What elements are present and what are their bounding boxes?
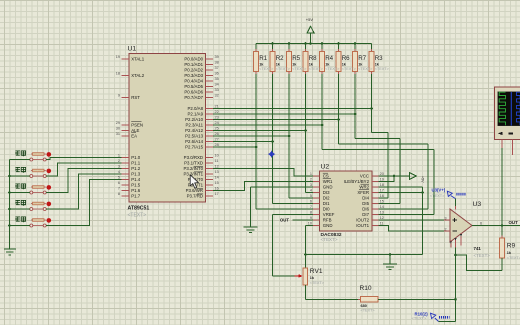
resistor R6 label	[342, 55, 350, 62]
op-amp U3 triangle	[450, 209, 472, 242]
potentiometer RV1 label	[310, 268, 323, 275]
svg-text:+5V: +5V	[421, 176, 425, 183]
svg-text:R8: R8	[309, 55, 317, 62]
graph control marks	[498, 132, 513, 135]
svg-text:6: 6	[118, 181, 120, 185]
svg-text:18: 18	[116, 72, 120, 76]
svg-text:<TEXT>: <TEXT>	[342, 67, 357, 71]
wire DAC DGND pin10 down to ground rail	[304, 226, 313, 268]
svg-text:XTAL2: XTAL2	[131, 73, 145, 78]
svg-text:P2.0/A8: P2.0/A8	[188, 106, 204, 111]
svg-text:DI5: DI5	[362, 201, 369, 206]
resistor R2 label	[276, 55, 284, 62]
wire R8 column down to DAC data pin	[306, 74, 314, 193]
push button SW3	[30, 185, 51, 194]
svg-text:17: 17	[380, 189, 384, 193]
resistor R6 body	[336, 44, 341, 75]
resistor R4 value 1k	[325, 62, 330, 66]
svg-text:IOUT2: IOUT2	[356, 218, 369, 223]
button 3 label 三角	[15, 184, 25, 189]
push button SW1	[30, 152, 51, 161]
svg-text:U1: U1	[128, 46, 137, 53]
svg-text:7: 7	[118, 187, 120, 191]
svg-text:WR2: WR2	[359, 185, 369, 190]
net label OUT right edge	[509, 220, 519, 225]
resistor R10 label	[360, 285, 372, 292]
svg-text:P1.6: P1.6	[131, 188, 141, 193]
wire P3.2 to DAC CS	[213, 169, 313, 177]
wire button 4 left terminal to chain	[10, 208, 30, 210]
IC U1 AT89C51 body	[129, 53, 206, 202]
svg-text:13: 13	[215, 170, 219, 174]
svg-text:<TEXT>: <TEXT>	[358, 67, 373, 71]
resistor R9 TEXT placeholder	[507, 256, 520, 260]
svg-text:1: 1	[310, 172, 312, 176]
svg-text:P2.4/A12: P2.4/A12	[185, 128, 203, 133]
svg-text:OUT: OUT	[509, 220, 519, 225]
U1 left pin stubs	[122, 59, 129, 196]
wire R3 column staircase to DAC data pin	[372, 74, 389, 198]
svg-text:3: 3	[310, 183, 312, 187]
svg-text:4: 4	[310, 189, 312, 193]
button 2 label 方波	[15, 167, 25, 172]
wire button 1 to U1 P1.0	[46, 158, 121, 160]
wire button 3 to U1 P1.2	[46, 169, 121, 193]
resistor R2 body	[270, 44, 275, 75]
resistor R1 label	[259, 55, 267, 62]
wire stub DAC RFB with OUT net label	[293, 219, 314, 221]
ground symbol button chain	[4, 249, 16, 255]
svg-text:11: 11	[380, 222, 384, 226]
svg-text:33: 33	[215, 88, 219, 92]
wire DAC ILE up to VCC net	[378, 175, 395, 182]
svg-text:<TEXT>: <TEXT>	[310, 281, 325, 285]
svg-text:14: 14	[380, 205, 384, 209]
svg-text:741: 741	[474, 246, 482, 251]
resistor R5 body	[287, 44, 292, 75]
wire R7 column staircase to DAC data pin	[355, 74, 400, 204]
U2 left pin stubs	[313, 176, 320, 226]
svg-text:<TEXT>: <TEXT>	[412, 316, 428, 321]
svg-text:<TEXT>: <TEXT>	[474, 253, 491, 258]
svg-text:P2.5/A13: P2.5/A13	[185, 134, 203, 139]
svg-text:P0.1/AD1: P0.1/AD1	[184, 62, 203, 67]
wire button 5 left terminal to chain	[10, 225, 30, 227]
resistor R5 TEXT placeholder	[292, 67, 307, 71]
svg-text:R4: R4	[325, 55, 333, 62]
power +5V label	[306, 17, 314, 22]
svg-text:34: 34	[215, 83, 219, 87]
svg-text:P3.2/INT0: P3.2/INT0	[183, 166, 203, 171]
resistor R8 value 1k	[309, 62, 314, 66]
svg-text:VREF: VREF	[323, 212, 335, 217]
svg-text:12: 12	[380, 216, 384, 220]
svg-text:17: 17	[215, 192, 219, 196]
button 5 label 梯形	[15, 217, 25, 222]
svg-text:6: 6	[480, 221, 482, 226]
svg-text:XFER: XFER	[357, 190, 369, 195]
svg-text:P3.1/TXD: P3.1/TXD	[184, 161, 203, 166]
U1 part label AT89C51	[128, 206, 150, 212]
resistor R9 body	[499, 226, 504, 271]
svg-text:P1.4: P1.4	[131, 177, 141, 182]
op-amp offset pin end marks	[450, 234, 463, 243]
ground symbol on bottom rail	[383, 255, 397, 270]
op-amp input output pin stubs	[444, 220, 479, 231]
svg-text:19: 19	[380, 178, 384, 182]
U2 TEXT placeholder	[321, 237, 338, 242]
wire DAC VCC to +5V terminal	[378, 173, 416, 180]
svg-text:<TEXT>: <TEXT>	[325, 67, 340, 71]
svg-text:10: 10	[215, 154, 219, 158]
op-amp part label 741	[474, 246, 482, 251]
U2 designator	[321, 163, 330, 170]
svg-text:14: 14	[215, 176, 219, 180]
potentiometer RV1 TEXT placeholder	[310, 281, 325, 285]
wire P3.6 to DAC WR1	[213, 182, 313, 191]
net label OUT at DAC RFB	[280, 217, 289, 222]
svg-text:<TEXT>: <TEXT>	[507, 256, 520, 260]
svg-text:P1.7: P1.7	[131, 194, 141, 199]
U2 part label DAC0832	[321, 232, 342, 238]
wire graph channel A down to OUT net	[501, 148, 503, 226]
button 1 label 正弦	[15, 151, 25, 156]
svg-text:29: 29	[116, 121, 120, 125]
svg-text:P3.3/INT1: P3.3/INT1	[183, 172, 203, 177]
resistor R4 label	[325, 55, 333, 62]
resistor R4 TEXT placeholder	[325, 67, 340, 71]
resistor R8 label	[309, 55, 317, 62]
svg-text:R3: R3	[375, 55, 383, 62]
svg-text:P0.7/AD7: P0.7/AD7	[184, 95, 203, 100]
graph display body	[495, 87, 520, 140]
wire DAC VREF to RV1 wiper	[273, 215, 314, 277]
wire P2.4 from U1 to resistor column	[213, 129, 307, 132]
resistor R7 body	[353, 44, 358, 75]
svg-text:U3: U3	[473, 201, 482, 208]
svg-text:<TEXT>: <TEXT>	[292, 67, 307, 71]
svg-text:20: 20	[380, 172, 384, 176]
svg-text:19: 19	[116, 55, 120, 59]
svg-text:15: 15	[380, 200, 384, 204]
ground symbol near DAC pin3	[244, 227, 258, 232]
svg-text:RV1: RV1	[310, 268, 323, 275]
svg-text:30: 30	[116, 127, 120, 131]
svg-text:AT89C51: AT89C51	[128, 206, 150, 212]
svg-text:<TEXT>: <TEXT>	[430, 193, 446, 198]
graph blue trace	[511, 92, 520, 126]
svg-text:WR1: WR1	[323, 179, 333, 184]
svg-text:P1.3: P1.3	[131, 172, 141, 177]
svg-text:P1.1: P1.1	[131, 161, 141, 166]
U1 designator	[128, 46, 137, 53]
wire R2 column down to DAC data pin	[273, 74, 314, 204]
wire op-amp V- net down to R10	[454, 247, 457, 321]
svg-text:PSEN: PSEN	[131, 123, 143, 128]
svg-text:<TEXT>: <TEXT>	[276, 67, 291, 71]
wire R6 column staircase to DAC data pin	[339, 74, 429, 209]
svg-text:GND: GND	[323, 223, 333, 228]
button 4 label 锯齿	[15, 200, 25, 205]
svg-text:8: 8	[118, 192, 120, 196]
svg-text:P1.5: P1.5	[131, 183, 141, 188]
rail junction dots	[271, 42, 356, 45]
svg-text:9: 9	[310, 216, 312, 220]
svg-text:R7: R7	[358, 55, 366, 62]
svg-text:GND: GND	[323, 185, 333, 190]
svg-text:13: 13	[380, 211, 384, 215]
svg-text:P0.4/AD4: P0.4/AD4	[184, 79, 203, 84]
svg-text:P0.3/AD3: P0.3/AD3	[184, 73, 203, 78]
wire P2.5 from U1 to resistor column	[213, 135, 290, 138]
svg-text:<TEXT>: <TEXT>	[361, 308, 376, 312]
svg-text:680: 680	[361, 304, 367, 308]
U1 pin names left	[131, 57, 145, 199]
svg-text:<TEXT>: <TEXT>	[259, 67, 274, 71]
svg-text:CS: CS	[323, 174, 329, 179]
wire DAC IOUT1 to op-amp inverting input	[378, 226, 450, 232]
svg-text:<TEXT>: <TEXT>	[309, 67, 324, 71]
svg-text:8: 8	[310, 211, 312, 215]
op-amp TEXT placeholder	[474, 253, 491, 258]
wire P2.3 from U1 to resistor column	[213, 124, 323, 127]
wire button 2 left terminal to chain	[10, 175, 30, 177]
wire button common ground chain vertical	[8, 160, 11, 250]
potentiometer RV1 wiper arrow	[295, 274, 303, 278]
graph green square trace	[499, 92, 505, 125]
wire P2.7 from U1 to resistor column	[213, 146, 257, 149]
svg-text:11: 11	[215, 159, 219, 163]
svg-text:32: 32	[215, 94, 219, 98]
wire DAC WR2 and XFER to ground vertical	[378, 187, 423, 255]
wire button 5 to U1 P1.4	[46, 180, 121, 226]
svg-text:<TEXT>: <TEXT>	[375, 67, 390, 71]
wire R9 bottom to V- net	[456, 255, 503, 271]
U1 pin names right	[183, 57, 203, 199]
svg-text:P0.2/AD2: P0.2/AD2	[184, 68, 203, 73]
power +5V terminal	[307, 26, 314, 43]
resistor R7 label	[358, 55, 366, 62]
op-amp V+ pin stub	[455, 199, 457, 210]
potentiometer RV1 value	[310, 276, 315, 280]
resistor R2 value 1k	[276, 62, 281, 66]
svg-text:OUT: OUT	[280, 217, 289, 222]
svg-text:9: 9	[118, 94, 120, 98]
wire P2.0 from U1 to resistor column	[213, 107, 373, 110]
wire P2.1 from U1 to resistor column	[213, 113, 356, 116]
svg-text:P1.0: P1.0	[131, 155, 141, 160]
svg-text:16: 16	[380, 194, 384, 198]
U1 pin numbers	[116, 55, 219, 196]
resistor R6 value 1k	[342, 62, 347, 66]
wire R4 column staircase to DAC data pin	[322, 74, 434, 215]
svg-text:P2.3/A11: P2.3/A11	[185, 123, 203, 128]
power rail +5V horizontal wire	[256, 43, 372, 45]
svg-text:P0.6/AD6: P0.6/AD6	[184, 90, 203, 95]
svg-text:U2: U2	[321, 163, 330, 170]
U2 right pin stubs	[372, 176, 379, 226]
resistor R8 TEXT placeholder	[309, 67, 324, 71]
blue origin marker diamond	[268, 151, 275, 158]
svg-text:EA: EA	[131, 134, 137, 139]
push button SW5	[30, 218, 51, 227]
svg-text:ILE/BY1/BY2: ILE/BY1/BY2	[344, 179, 370, 184]
op-amp offset and V- pin stubs	[451, 233, 461, 247]
resistor R3 body	[369, 44, 374, 75]
svg-text:36: 36	[215, 72, 219, 76]
U1 TEXT placeholder	[128, 213, 147, 219]
svg-text:P3.6/WR: P3.6/WR	[186, 188, 203, 193]
push button SW2	[30, 169, 51, 178]
svg-text:R6: R6	[342, 55, 350, 62]
svg-text:2: 2	[310, 178, 312, 182]
wire button 1 left terminal to chain	[10, 159, 30, 161]
wire RV1 bottom to R10	[306, 298, 361, 300]
op-amp U3 designator	[473, 201, 482, 208]
resistor R7 TEXT placeholder	[358, 67, 373, 71]
U1 right pin stubs	[205, 59, 213, 196]
svg-text:18: 18	[380, 183, 384, 187]
resistor R3 value 1k	[375, 62, 380, 66]
svg-text:P3.0/RXD: P3.0/RXD	[184, 155, 203, 160]
resistor R9 label	[507, 243, 516, 250]
svg-text:R9: R9	[507, 243, 516, 250]
svg-text:DI0: DI0	[323, 207, 330, 212]
svg-text:R5: R5	[292, 55, 300, 62]
resistor R5 label	[292, 55, 300, 62]
resistor R10 value	[361, 304, 367, 308]
svg-text:37: 37	[215, 66, 219, 70]
svg-text:P2.1/A9: P2.1/A9	[188, 112, 204, 117]
svg-text:DI6: DI6	[362, 207, 369, 212]
svg-text:P2.2/A10: P2.2/A10	[185, 117, 203, 122]
resistor R8 body	[303, 44, 308, 75]
svg-text:R2: R2	[276, 55, 284, 62]
resistor R4 body	[320, 44, 325, 75]
wire P2.6 from U1 to resistor column	[213, 140, 274, 143]
svg-text:6: 6	[310, 200, 312, 204]
svg-text:2: 2	[444, 226, 446, 231]
wire button 4 to U1 P1.3	[46, 174, 121, 209]
svg-text:<TEXT>: <TEXT>	[128, 213, 147, 219]
resistor R1 value 1k	[259, 62, 264, 66]
svg-text:R1: R1	[259, 55, 267, 62]
resistor R9 value	[507, 251, 512, 255]
wire DAC AGND pin3 to ground	[251, 187, 314, 227]
resistor R10 body	[358, 297, 381, 302]
svg-text:DI1: DI1	[323, 201, 330, 206]
voltage probe U3(V+)	[430, 188, 466, 199]
svg-text:38: 38	[215, 61, 219, 65]
svg-text:IOUT1: IOUT1	[356, 223, 369, 228]
svg-text:31: 31	[116, 132, 120, 136]
resistor R1 body	[254, 44, 259, 75]
wire R10 right to V- net	[378, 298, 456, 300]
svg-text:15: 15	[215, 181, 219, 185]
svg-text:P2.7/A15: P2.7/A15	[185, 145, 203, 150]
resistor R3 label	[375, 55, 383, 62]
voltage probe R10(2)	[412, 311, 456, 321]
svg-text:DI4: DI4	[362, 196, 369, 201]
wire R1 column down to DAC data pin	[256, 74, 313, 209]
svg-text:DI2: DI2	[323, 196, 330, 201]
svg-text:VCC: VCC	[360, 174, 369, 179]
mouse cursor	[190, 175, 198, 188]
svg-text:RST: RST	[131, 95, 140, 100]
op-amp pin numbers	[444, 215, 482, 231]
svg-text:5: 5	[310, 194, 312, 198]
svg-text:<TEXT>: <TEXT>	[321, 237, 338, 242]
svg-text:RFB: RFB	[323, 218, 332, 223]
potentiometer RV1 body	[303, 268, 307, 300]
wire R5 column down to DAC data pin	[289, 74, 313, 198]
svg-text:10: 10	[308, 222, 312, 226]
resistor R3 TEXT placeholder	[375, 67, 390, 71]
resistor R1 TEXT placeholder	[259, 67, 274, 71]
svg-text:7: 7	[310, 205, 312, 209]
svg-text:P0.5/AD5: P0.5/AD5	[184, 84, 203, 89]
svg-text:P1.2: P1.2	[131, 166, 141, 171]
resistor R5 value 1k	[292, 62, 297, 66]
op-amp plus minus signs	[452, 218, 456, 231]
svg-text:3: 3	[444, 215, 446, 220]
graph pin wires	[502, 140, 513, 156]
IC U2 DAC0832 body	[320, 171, 372, 231]
push button SW4	[30, 202, 51, 211]
wire op-amp output to OUT	[472, 224, 520, 227]
svg-text:P2.6/A14: P2.6/A14	[185, 139, 203, 144]
resistor R2 TEXT placeholder	[276, 67, 291, 71]
resistor R7 value 1k	[358, 62, 363, 66]
svg-text:DI3: DI3	[323, 190, 330, 195]
svg-text:P3.7/RD: P3.7/RD	[187, 194, 203, 199]
resistor R10 TEXT placeholder	[361, 308, 376, 312]
wire button 2 to U1 P1.1	[46, 163, 121, 176]
resistor R6 TEXT placeholder	[342, 67, 357, 71]
wire button 3 left terminal to chain	[10, 192, 30, 194]
svg-text:P0.0/AD0: P0.0/AD0	[184, 57, 203, 62]
label +5V vertical at DAC VCC terminal	[421, 176, 425, 183]
svg-text:39: 39	[215, 55, 219, 59]
svg-text:+5V: +5V	[306, 17, 314, 22]
ground rail wire bottom	[306, 253, 423, 256]
svg-text:R10: R10	[360, 285, 372, 292]
svg-text:35: 35	[215, 77, 219, 81]
wire DAC IOUT2 to op-amp noninverting input	[378, 219, 450, 221]
U2 pin names and numbers	[308, 172, 384, 228]
svg-text:DI7: DI7	[362, 212, 369, 217]
svg-text:XTAL1: XTAL1	[131, 57, 145, 62]
wire P2.2 from U1 to resistor column	[213, 118, 340, 121]
